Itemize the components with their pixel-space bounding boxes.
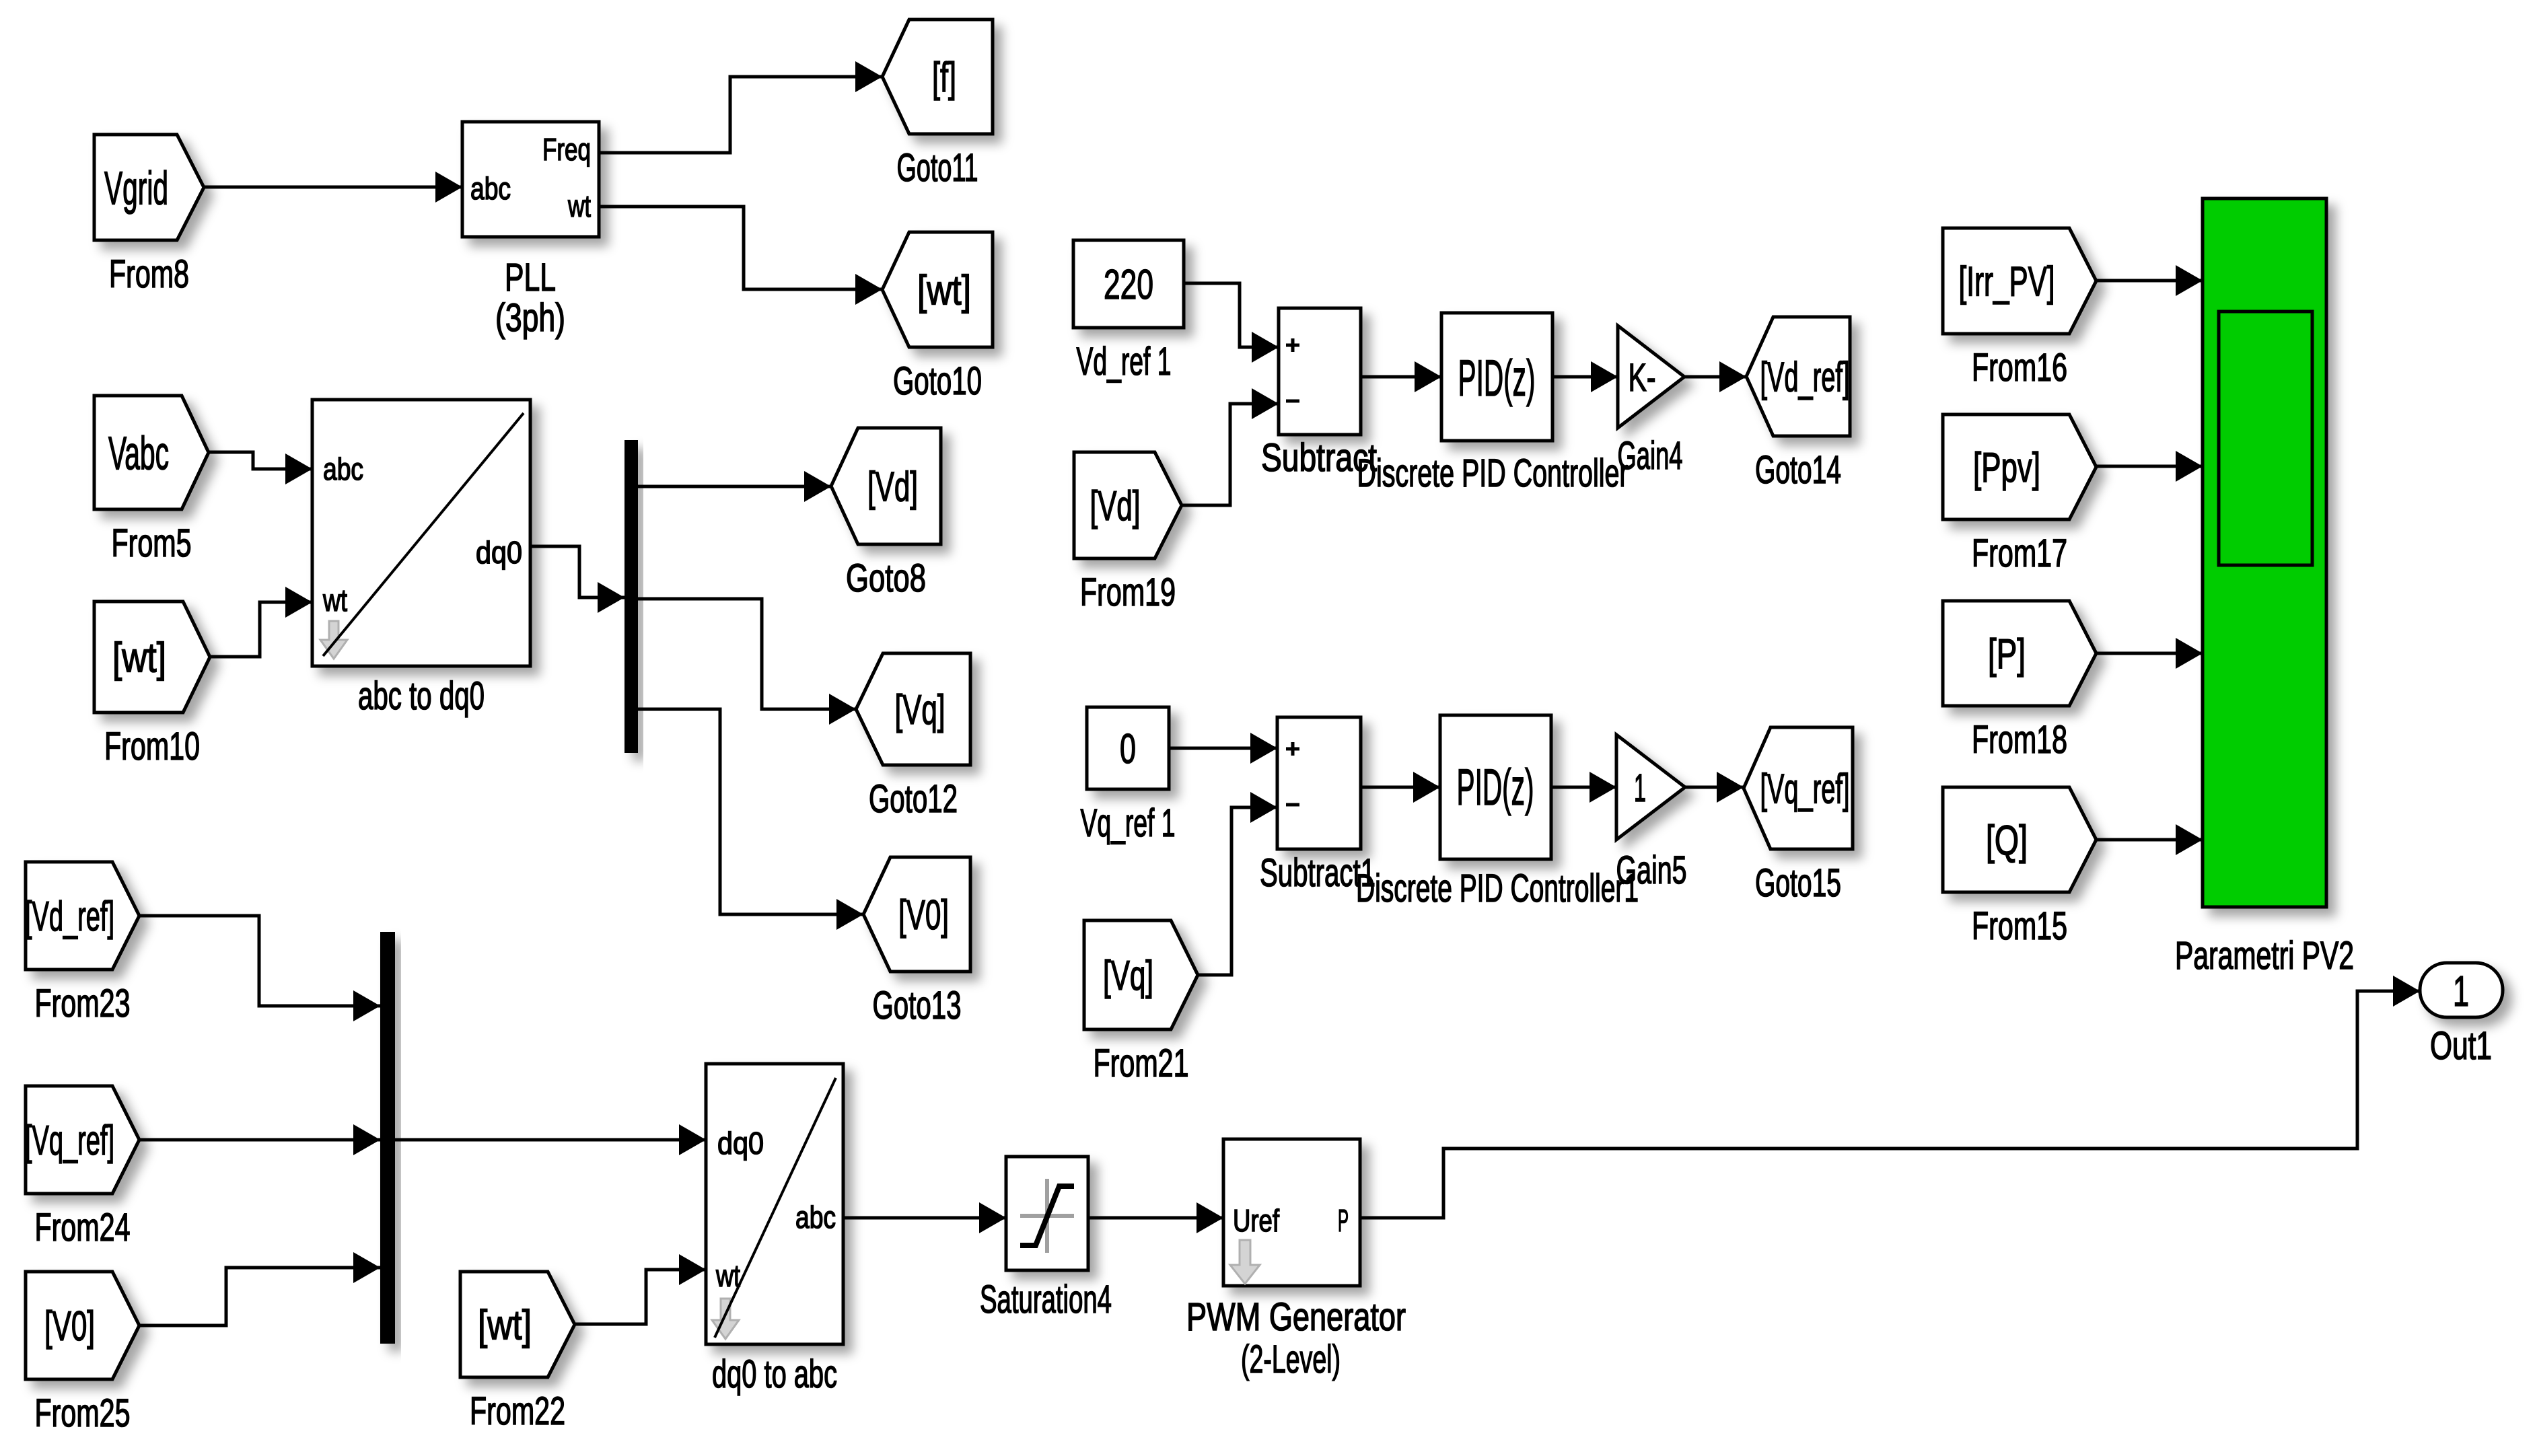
svg-text:dq0: dq0 — [717, 1126, 764, 1161]
svg-text:abc to dq0: abc to dq0 — [358, 674, 485, 718]
svg-text:From21: From21 — [1094, 1042, 1189, 1085]
svg-text:(2-Level): (2-Level) — [1241, 1338, 1341, 1381]
svg-text:[Vd]: [Vd] — [867, 464, 918, 511]
svg-text:0: 0 — [1120, 726, 1136, 772]
svg-text:From22: From22 — [470, 1389, 565, 1433]
svg-text:1: 1 — [2453, 967, 2469, 1015]
svg-text:Discrete PID Controller: Discrete PID Controller — [1357, 451, 1629, 495]
svg-text:1: 1 — [1634, 766, 1646, 810]
svg-text:[Ppv]: [Ppv] — [1973, 445, 2040, 491]
svg-text:220: 220 — [1104, 262, 1153, 308]
svg-text:Goto14: Goto14 — [1755, 448, 1841, 492]
svg-text:[Vq_ref]: [Vq_ref] — [25, 1118, 114, 1164]
svg-text:PLL: PLL — [505, 256, 556, 299]
svg-text:Goto11: Goto11 — [897, 146, 978, 190]
svg-text:Goto13: Goto13 — [873, 984, 962, 1027]
svg-text:Vabc: Vabc — [108, 427, 169, 480]
svg-text:[Irr_PV]: [Irr_PV] — [1959, 259, 2055, 305]
svg-text:Goto8: Goto8 — [846, 556, 926, 600]
svg-text:Gain4: Gain4 — [1618, 434, 1683, 478]
svg-text:Gain5: Gain5 — [1616, 848, 1687, 892]
svg-text:Vgrid: Vgrid — [104, 162, 168, 215]
svg-text:From16: From16 — [1972, 346, 2067, 390]
svg-text:From25: From25 — [35, 1391, 131, 1435]
svg-text:PID(z): PID(z) — [1458, 350, 1536, 407]
svg-text:[Vd]: [Vd] — [1090, 483, 1141, 530]
svg-text:Out1: Out1 — [2430, 1024, 2492, 1068]
svg-text:[Vq]: [Vq] — [1103, 953, 1153, 999]
svg-text:Freq: Freq — [542, 132, 591, 167]
svg-text:From23: From23 — [35, 982, 131, 1025]
svg-text:(3ph): (3ph) — [495, 296, 565, 340]
svg-text:Saturation4: Saturation4 — [980, 1278, 1112, 1321]
svg-text:Goto10: Goto10 — [893, 359, 982, 403]
svg-text:[wt]: [wt] — [112, 635, 166, 682]
svg-text:dq0: dq0 — [476, 535, 522, 570]
svg-text:wt: wt — [322, 583, 347, 618]
svg-text:[V0]: [V0] — [898, 892, 949, 939]
svg-text:Parametri PV2: Parametri PV2 — [2175, 934, 2354, 978]
svg-text:From18: From18 — [1972, 718, 2067, 762]
svg-text:From19: From19 — [1080, 571, 1176, 614]
svg-text:wt: wt — [715, 1258, 740, 1293]
svg-text:[f]: [f] — [932, 54, 956, 101]
svg-text:From8: From8 — [109, 252, 189, 296]
svg-text:From5: From5 — [112, 521, 192, 565]
svg-text:[V0]: [V0] — [44, 1303, 95, 1350]
svg-text:[wt]: [wt] — [478, 1303, 532, 1349]
svg-text:abc: abc — [323, 451, 363, 486]
svg-text:From24: From24 — [35, 1206, 131, 1249]
svg-text:PWM Generator: PWM Generator — [1186, 1295, 1406, 1339]
svg-text:[Vq]: [Vq] — [895, 687, 945, 733]
svg-text:From15: From15 — [1972, 904, 2067, 948]
svg-text:PID(z): PID(z) — [1457, 759, 1534, 816]
svg-text:[Vd_ref]: [Vd_ref] — [1760, 355, 1850, 401]
svg-text:[P]: [P] — [1988, 631, 2026, 678]
svg-text:Discrete PID Controller1: Discrete PID Controller1 — [1356, 867, 1639, 910]
svg-text:From10: From10 — [104, 725, 200, 768]
svg-text:Uref: Uref — [1233, 1203, 1279, 1238]
svg-text:[Vq_ref]: [Vq_ref] — [1760, 766, 1850, 813]
svg-text:[Vd_ref]: [Vd_ref] — [25, 894, 114, 940]
svg-text:Goto15: Goto15 — [1755, 861, 1841, 905]
svg-text:[wt]: [wt] — [917, 268, 971, 314]
svg-text:K-: K- — [1629, 356, 1656, 400]
svg-text:dq0 to abc: dq0 to abc — [712, 1352, 837, 1396]
svg-text:abc: abc — [470, 171, 511, 206]
svg-text:abc: abc — [795, 1200, 836, 1235]
svg-text:Vq_ref 1: Vq_ref 1 — [1081, 801, 1176, 845]
svg-text:Goto12: Goto12 — [869, 777, 958, 821]
svg-text:wt: wt — [567, 188, 591, 223]
svg-text:Vd_ref 1: Vd_ref 1 — [1077, 340, 1172, 384]
svg-text:P: P — [1338, 1203, 1349, 1238]
svg-text:[Q]: [Q] — [1986, 817, 2028, 864]
svg-text:From17: From17 — [1972, 532, 2067, 575]
